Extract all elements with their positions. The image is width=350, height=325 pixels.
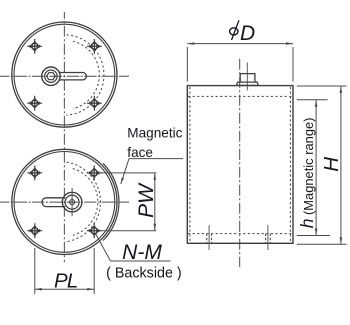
bottom hole left centerline bbox=[208, 225, 210, 250]
top view horizontal centerline bbox=[0, 75, 129, 77]
N-M leader bbox=[96, 234, 171, 262]
svg-text:N-M: N-M bbox=[122, 241, 162, 264]
label PW bbox=[135, 182, 158, 218]
side view body rectangle bbox=[187, 86, 293, 244]
label PL bbox=[54, 270, 77, 293]
svg-text:( Backside ): ( Backside ) bbox=[106, 265, 181, 281]
svg-text:face: face bbox=[127, 145, 153, 160]
h dimension line with arrows bbox=[315, 100, 318, 236]
bottom view hidden dashed arc outer bbox=[67, 162, 101, 242]
bottom hole right dashed sides bbox=[266, 234, 271, 244]
magnetic face leader bbox=[121, 159, 183, 184]
PW dimension line with arrows bbox=[154, 173, 157, 231]
top view hidden dashed arc inner bbox=[73, 41, 100, 109]
side view hidden inner right dashed line bbox=[289, 87, 291, 243]
phiD extension lines bbox=[187, 47, 293, 82]
bottom hole left dashed sides bbox=[207, 234, 212, 244]
svg-text:Magnetic: Magnetic bbox=[127, 125, 182, 140]
label H bbox=[320, 157, 343, 172]
nut body bbox=[240, 74, 255, 83]
svg-text:D: D bbox=[240, 22, 255, 45]
PW dimension extension lines bbox=[101, 173, 156, 231]
nut centerline bbox=[246, 63, 248, 91]
bottom view outer circle bbox=[12, 149, 117, 254]
bottom view center small circle bbox=[70, 200, 75, 205]
H dimension line with arrows bbox=[340, 86, 343, 244]
top view hidden dashed arc outer bbox=[67, 35, 104, 115]
top view screw hole bottom-left bbox=[27, 96, 42, 111]
nut flange bbox=[237, 82, 259, 85]
bottom view screw hole bottom-left bbox=[27, 223, 42, 238]
bottom view center boss outer circle bbox=[62, 192, 82, 212]
top view center boss ring bbox=[45, 70, 57, 82]
h dimension extension lines bbox=[297, 100, 330, 236]
side view hidden top dashed line bbox=[188, 95, 293, 97]
bottom view screw hole top-left bbox=[27, 166, 42, 181]
bottom view hidden dashed arc inner bbox=[73, 169, 98, 236]
bottom view center boss ring bbox=[65, 195, 79, 209]
label Backside bbox=[106, 265, 181, 281]
PL dimension extension lines bbox=[35, 248, 94, 294]
bottom hole right centerline bbox=[267, 225, 269, 250]
bottom view screw hole top-right bbox=[87, 166, 102, 181]
top view center boss outer circle bbox=[42, 67, 60, 85]
svg-text:h (Magnetic range): h (Magnetic range) bbox=[297, 118, 317, 229]
top view slot bbox=[59, 73, 86, 80]
label Magnetic face bbox=[127, 125, 182, 160]
bottom view inner circle bbox=[14, 152, 115, 253]
svg-text:H: H bbox=[320, 157, 343, 172]
top view screw hole top-right bbox=[87, 39, 102, 54]
top view outer circle bbox=[12, 22, 117, 127]
top view hex socket bbox=[47, 73, 56, 80]
top view vertical centerline bbox=[63, 12, 65, 262]
bottom view slot bbox=[42, 198, 65, 207]
label h (Magnetic range) bbox=[297, 118, 317, 229]
bottom view magnetic face arc bbox=[103, 163, 119, 240]
side view hidden inner left dashed line bbox=[189, 87, 191, 243]
svg-text:PL: PL bbox=[54, 270, 77, 293]
bottom view boss vertical crosshair bbox=[71, 188, 73, 216]
svg-text:PW: PW bbox=[135, 182, 158, 218]
top view screw hole bottom-right bbox=[87, 96, 102, 111]
label phiD bbox=[230, 20, 256, 45]
bottom view horizontal centerline bbox=[0, 201, 129, 203]
H dimension extension lines bbox=[297, 86, 347, 244]
label N-M bbox=[122, 241, 162, 264]
PL dimension line with arrows bbox=[35, 288, 94, 291]
side view centerline bbox=[239, 59, 241, 267]
bottom view screw hole bottom-right bbox=[87, 223, 102, 238]
top view inner circle bbox=[14, 24, 115, 125]
phiD dimension line with arrows bbox=[187, 42, 293, 45]
side view hidden bottom dashed line bbox=[188, 233, 293, 235]
top view screw hole top-left bbox=[27, 39, 42, 54]
